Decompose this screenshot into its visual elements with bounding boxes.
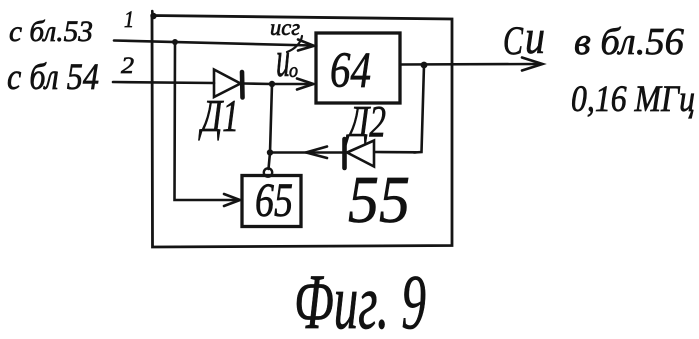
svg-text:о: о: [289, 58, 298, 82]
node C junction dot: [267, 149, 273, 155]
wire input 1 (net Исг): [114, 41, 312, 46]
svg-text:с бл.53: с бл.53: [9, 15, 93, 48]
inverter bubble on U65: [264, 168, 272, 176]
corner tick top-left: [151, 11, 154, 16]
wire input 2: [113, 82, 214, 83]
node junction on wire 1: [172, 39, 178, 45]
svg-text:Фиг. 9: Фиг. 9: [294, 258, 426, 334]
arrow into U64 lower input: [297, 79, 314, 90]
wire Д2 anode segment: [375, 151, 416, 154]
wire Д1 cathode to node Uo: [244, 82, 272, 85]
svg-text:Д2: Д2: [345, 97, 386, 146]
arrow into U65 left input: [224, 194, 240, 206]
node Uo junction dot: [269, 81, 275, 87]
output arrowhead: [522, 58, 543, 71]
wire from node 1 down left side to U65 input: [175, 42, 239, 200]
block U65: [242, 176, 301, 227]
svg-text:с бл 54: с бл 54: [7, 57, 99, 98]
block U64: [316, 33, 400, 103]
svg-text:2: 2: [121, 53, 134, 78]
arrow into U64 top input: [298, 40, 314, 51]
diode Д1 triangle: [214, 70, 241, 98]
svg-text:55: 55: [348, 163, 410, 237]
diode Д1 cathode bar: [240, 72, 245, 98]
diode Д2 triangle: [347, 141, 374, 167]
stroke: tail of г in Исг: [287, 36, 302, 52]
node junction on output wire: [421, 62, 428, 69]
output wire СИ: [400, 63, 540, 66]
svg-text:в бл.56: в бл.56: [574, 21, 684, 63]
wire Д2 cathode to node C: [270, 151, 342, 154]
svg-text:Д1: Д1: [198, 90, 239, 141]
outer block 55 boundary: [152, 16, 452, 248]
wire from output node down to Д2: [414, 65, 424, 153]
svg-text:и: и: [276, 31, 290, 87]
wire node Uo to U64 lower input: [272, 83, 312, 86]
svg-text:1: 1: [124, 7, 134, 32]
arrowhead on Д2 wire pointing left: [306, 147, 327, 159]
svg-text:65: 65: [255, 174, 293, 227]
diode Д2 cathode bar: [342, 139, 347, 168]
wire node Uo down to inverter circle of U65: [269, 84, 273, 169]
svg-text:и: и: [525, 11, 545, 64]
svg-text:0,16 МГц: 0,16 МГц: [571, 79, 695, 120]
corner dot top-left: [150, 13, 156, 19]
svg-text:64: 64: [330, 43, 371, 99]
svg-text:С: С: [503, 18, 524, 63]
